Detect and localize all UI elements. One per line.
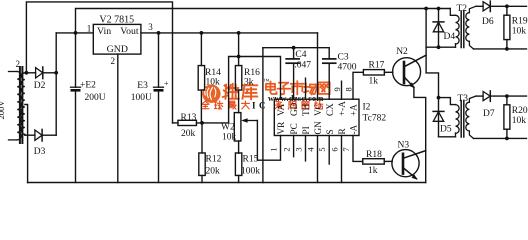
resistor R18 bbox=[363, 159, 392, 164]
svg-text:TH: TH bbox=[301, 103, 311, 116]
svg-text:W2: W2 bbox=[221, 123, 235, 133]
transistor N2 bbox=[393, 55, 427, 88]
wire +V bus top (y=8.5) from E2 column to T2 bbox=[76, 9, 451, 88]
svg-text:6: 6 bbox=[330, 147, 340, 151]
transformer T1 core bbox=[20, 67, 23, 143]
svg-text:100U: 100U bbox=[131, 93, 152, 103]
wire wiper to IC bottom pin 1 (VR) bbox=[257, 121, 280, 161]
svg-text:VC: VC bbox=[313, 103, 323, 116]
IC bottom pin numbers 1-7 (rotated) bbox=[269, 147, 352, 152]
wire divider tap to IC top pin 1 bbox=[229, 57, 281, 123]
svg-text:IC: IC bbox=[252, 100, 269, 110]
svg-text:R12: R12 bbox=[206, 155, 222, 165]
node +V bus to N2 collector branch bbox=[424, 7, 428, 11]
transformer T3 primary winding bbox=[456, 105, 460, 137]
svg-text:D5: D5 bbox=[440, 125, 452, 135]
svg-text:1k: 1k bbox=[368, 166, 378, 176]
svg-text:R17: R17 bbox=[369, 61, 385, 71]
svg-text:9: 9 bbox=[332, 87, 342, 91]
transformer T3 secondary winding bbox=[466, 96, 476, 138]
resistor R17 bbox=[363, 70, 392, 75]
svg-text:5: 5 bbox=[317, 147, 327, 151]
svg-text:R18: R18 bbox=[366, 150, 382, 160]
node error-divider tap to IC pin (y=56.5) bbox=[237, 55, 241, 59]
transformer T2 secondary winding bbox=[466, 6, 476, 49]
svg-text:7: 7 bbox=[341, 147, 351, 151]
diode D5 (vertical, cathode up) bbox=[433, 98, 444, 137]
node C4 tap bbox=[292, 46, 296, 50]
svg-text:Vin: Vin bbox=[97, 26, 111, 37]
svg-text:N3: N3 bbox=[398, 141, 410, 151]
capacitor C4 bbox=[286, 48, 299, 99]
node R14/R13 junction bbox=[200, 121, 204, 125]
node D4 anode junction bbox=[437, 45, 441, 49]
transformer T1 primary winding 200V bbox=[9, 72, 22, 140]
svg-text:R16: R16 bbox=[244, 68, 260, 78]
svg-text:T3: T3 bbox=[458, 94, 469, 104]
svg-text:-A: -A bbox=[349, 124, 359, 134]
wire center tap to ground rail bbox=[25, 105, 28, 183]
svg-text:VR: VR bbox=[276, 121, 286, 135]
svg-text:1: 1 bbox=[87, 24, 92, 34]
svg-text:R: R bbox=[337, 128, 347, 135]
svg-text:3k: 3k bbox=[244, 78, 254, 88]
wire T2 secondary bottom output bbox=[474, 48, 527, 50]
transistor N3 bbox=[392, 150, 426, 180]
svg-text:10k: 10k bbox=[512, 116, 527, 126]
svg-text:V2 7815: V2 7815 bbox=[99, 14, 134, 25]
svg-text:.047: .047 bbox=[294, 61, 311, 71]
svg-text:+E2: +E2 bbox=[80, 81, 96, 91]
svg-text:20k: 20k bbox=[181, 129, 196, 139]
node R19 bottom bbox=[505, 47, 509, 51]
svg-text:N2: N2 bbox=[396, 47, 408, 57]
node secondary-top junction bbox=[25, 71, 29, 75]
svg-text:+A: +A bbox=[349, 104, 359, 116]
svg-text:Vout: Vout bbox=[120, 26, 139, 37]
transformer T2 primary winding bbox=[450, 9, 459, 48]
capacitor E2 (electrolytic) bbox=[71, 87, 81, 182]
wire cap bus y=47.7 bbox=[263, 47, 329, 49]
svg-text:200U: 200U bbox=[85, 93, 106, 103]
svg-text:200V: 200V bbox=[0, 100, 6, 120]
wire IC bottom pin 7 to R18 bbox=[353, 136, 363, 162]
svg-text:2: 2 bbox=[111, 56, 116, 66]
IC top pin numbers 9 and 8 (rotated) bbox=[332, 87, 354, 91]
svg-text:R14: R14 bbox=[205, 68, 221, 78]
svg-text:D4: D4 bbox=[444, 32, 456, 42]
IC top pin labels (rotated) bbox=[276, 101, 359, 116]
svg-text:VA: VA bbox=[276, 104, 286, 116]
svg-text:C4: C4 bbox=[295, 50, 306, 60]
potentiometer W2 bbox=[234, 113, 241, 153]
node D4 cathode on +V bus bbox=[437, 7, 441, 11]
resistor R12 bbox=[199, 123, 205, 183]
svg-text:GND: GND bbox=[107, 44, 128, 55]
wire regulator pin3 output rail y=32.9 bbox=[141, 32, 318, 34]
svg-text:PI: PI bbox=[301, 126, 311, 134]
node R19 top bbox=[505, 4, 509, 8]
wire cap bus ground drop bbox=[262, 48, 264, 183]
svg-text:4700: 4700 bbox=[338, 62, 357, 72]
svg-text:D2: D2 bbox=[34, 81, 46, 91]
svg-text:Tc782: Tc782 bbox=[363, 114, 387, 124]
wire IC pin GN (4) to ground rail bbox=[317, 136, 319, 183]
wire T3 secondary bottom output bbox=[474, 137, 527, 139]
svg-text:3: 3 bbox=[294, 147, 304, 151]
capacitor E3 (electrolytic) bbox=[154, 33, 164, 183]
svg-text:2: 2 bbox=[16, 59, 21, 69]
svg-text:4: 4 bbox=[306, 147, 316, 152]
svg-text:D6: D6 bbox=[482, 17, 494, 27]
wire regulator pin1 input bbox=[56, 32, 93, 34]
svg-text:3: 3 bbox=[148, 22, 153, 32]
diode D7 bbox=[483, 91, 526, 101]
node R20 top bbox=[505, 94, 509, 98]
svg-text:GN: GN bbox=[313, 121, 323, 135]
wire T3 secondary top to D7 bbox=[476, 95, 483, 97]
IC bottom pin labels (rotated) bbox=[276, 121, 359, 135]
transformer T1 secondary winding with center tap bbox=[21, 73, 24, 135]
node E2 tap on pin1 wire bbox=[74, 31, 78, 35]
resistor R16 bbox=[235, 33, 241, 113]
wire T3 primary top bbox=[439, 98, 456, 105]
svg-text:2: 2 bbox=[282, 147, 292, 151]
svg-text:10k: 10k bbox=[206, 78, 221, 88]
svg-text:R13: R13 bbox=[181, 113, 197, 123]
regulator U1 7815 box bbox=[93, 24, 141, 54]
node D2 cathode junction bbox=[54, 71, 58, 75]
resistor R15 bbox=[235, 153, 241, 183]
svg-text:T2: T2 bbox=[457, 4, 468, 14]
svg-text:+: + bbox=[164, 79, 169, 88]
svg-text:R15: R15 bbox=[243, 155, 259, 165]
svg-text:+-A: +-A bbox=[337, 101, 347, 116]
transformer T2 core bbox=[461, 11, 464, 48]
ground rail bottom bbox=[28, 182, 426, 184]
wire collector branch down / jog to T3 primary top bbox=[426, 9, 438, 98]
svg-text:R20: R20 bbox=[512, 106, 528, 116]
svg-text:R19: R19 bbox=[512, 17, 528, 27]
svg-text:D3: D3 bbox=[34, 147, 46, 157]
svg-text:S: S bbox=[325, 129, 335, 134]
diode D4 (vertical, cathode up) bbox=[433, 9, 444, 48]
transformer T3 core bbox=[461, 101, 464, 138]
potentiometer W2 wiper arrow bbox=[241, 118, 257, 123]
wire T3 primary bottom bbox=[439, 136, 456, 138]
wire T2 secondary top to D6 bbox=[476, 5, 483, 7]
watermark logo + text 维库电子市场网 (orange) bbox=[202, 78, 330, 110]
IC bottom pin stubs 2,3,5 (free ends) bbox=[294, 136, 330, 165]
svg-text:20k: 20k bbox=[206, 167, 221, 177]
diode D3 bbox=[25, 129, 56, 141]
svg-text:1k: 1k bbox=[369, 77, 379, 87]
wire IC pin R (6) to ground rail bbox=[341, 136, 343, 183]
svg-text:E3: E3 bbox=[137, 81, 148, 91]
wire regulator pin2 to ground rail bbox=[117, 54, 119, 182]
wire rectified rail (D2/D3 cathodes up to regulator input) bbox=[55, 33, 57, 135]
svg-text:1: 1 bbox=[269, 147, 279, 151]
svg-text:100k: 100k bbox=[241, 167, 260, 177]
svg-text:I2: I2 bbox=[363, 103, 371, 113]
svg-text:C3: C3 bbox=[338, 53, 349, 63]
node E3 tap bbox=[157, 31, 161, 35]
resistor R13 bbox=[173, 120, 229, 125]
svg-text:GD: GD bbox=[289, 102, 299, 116]
wire Vout rail corner down to IC top pin 4 bbox=[317, 33, 319, 99]
svg-text:10k: 10k bbox=[512, 27, 527, 37]
IC top pin stubs (pin3 TH free, pin6 free) bbox=[306, 78, 342, 99]
wire IC top pin 7 to R17 bbox=[353, 72, 363, 99]
svg-text:8: 8 bbox=[344, 87, 354, 91]
svg-text:PC: PC bbox=[289, 123, 299, 134]
resistor R14 bbox=[198, 33, 204, 123]
node R20 bottom bbox=[505, 137, 509, 141]
wire T2 primary bottom bbox=[426, 46, 455, 48]
diode D6 bbox=[483, 1, 526, 11]
node R16 tap bbox=[237, 31, 241, 35]
wire N2 emitter down to N3 collector rail bbox=[414, 87, 426, 182]
svg-text:D7: D7 bbox=[483, 109, 495, 119]
node T3 top / D5 junction bbox=[437, 96, 441, 100]
node R14 tap bbox=[200, 31, 204, 35]
wire secondary top to D2 with junction bbox=[25, 72, 36, 74]
resistor R20 bbox=[504, 96, 510, 138]
diode D2 bbox=[36, 67, 57, 79]
svg-text:10k: 10k bbox=[222, 133, 237, 143]
resistor R19 bbox=[504, 6, 510, 49]
capacitor C3 bbox=[323, 48, 336, 99]
wire left sense vertical to top bbox=[26, 2, 172, 123]
svg-text:CX: CX bbox=[325, 103, 335, 116]
IC U2 Tc782 box bbox=[274, 99, 359, 135]
